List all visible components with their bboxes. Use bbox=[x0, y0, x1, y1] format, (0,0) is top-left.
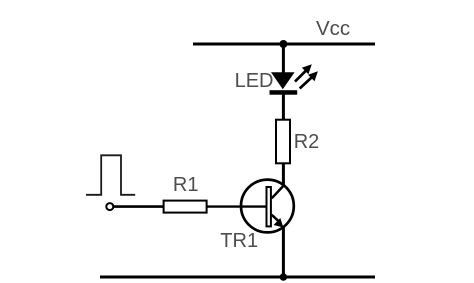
node: junction dot on ground rail bbox=[280, 273, 288, 281]
svg-text:LED: LED bbox=[235, 70, 274, 92]
transistor TR1 (NPN) body circle bbox=[241, 180, 294, 233]
transistor TR1 collector stroke bbox=[272, 185, 284, 198]
input pulse waveform symbol bbox=[86, 155, 135, 195]
wire: input terminal to resistor R1 bbox=[114, 205, 164, 208]
resistor R1 bbox=[164, 201, 207, 213]
wire: emitter down to ground rail bbox=[282, 227, 285, 277]
input terminal (open circle) bbox=[106, 203, 113, 210]
transistor TR1 emitter stroke with arrow bbox=[272, 215, 284, 228]
ground rail (bottom line) bbox=[100, 276, 375, 279]
resistor R2 bbox=[276, 120, 290, 164]
Vcc rail (top supply line) bbox=[193, 43, 375, 46]
LED: diode triangle (anode) bbox=[271, 72, 295, 89]
wire: LED cathode to resistor R2 bbox=[282, 95, 285, 120]
wire: Vcc rail down to LED anode bbox=[282, 44, 285, 74]
svg-text:TR1: TR1 bbox=[220, 230, 258, 252]
wire: base lead from R1 into transistor bbox=[207, 205, 266, 207]
transistor TR1 base bar bbox=[267, 187, 271, 226]
svg-text:R2: R2 bbox=[294, 131, 320, 153]
svg-text:R1: R1 bbox=[173, 174, 199, 196]
svg-text:Vcc: Vcc bbox=[316, 17, 350, 40]
LED light-emission arrow 2 bbox=[300, 71, 318, 88]
wire: R2 to transistor collector bbox=[282, 164, 285, 186]
node: junction dot on Vcc rail bbox=[279, 40, 287, 48]
LED: cathode bar bbox=[270, 90, 298, 95]
LED light-emission arrow 1 bbox=[295, 64, 312, 81]
